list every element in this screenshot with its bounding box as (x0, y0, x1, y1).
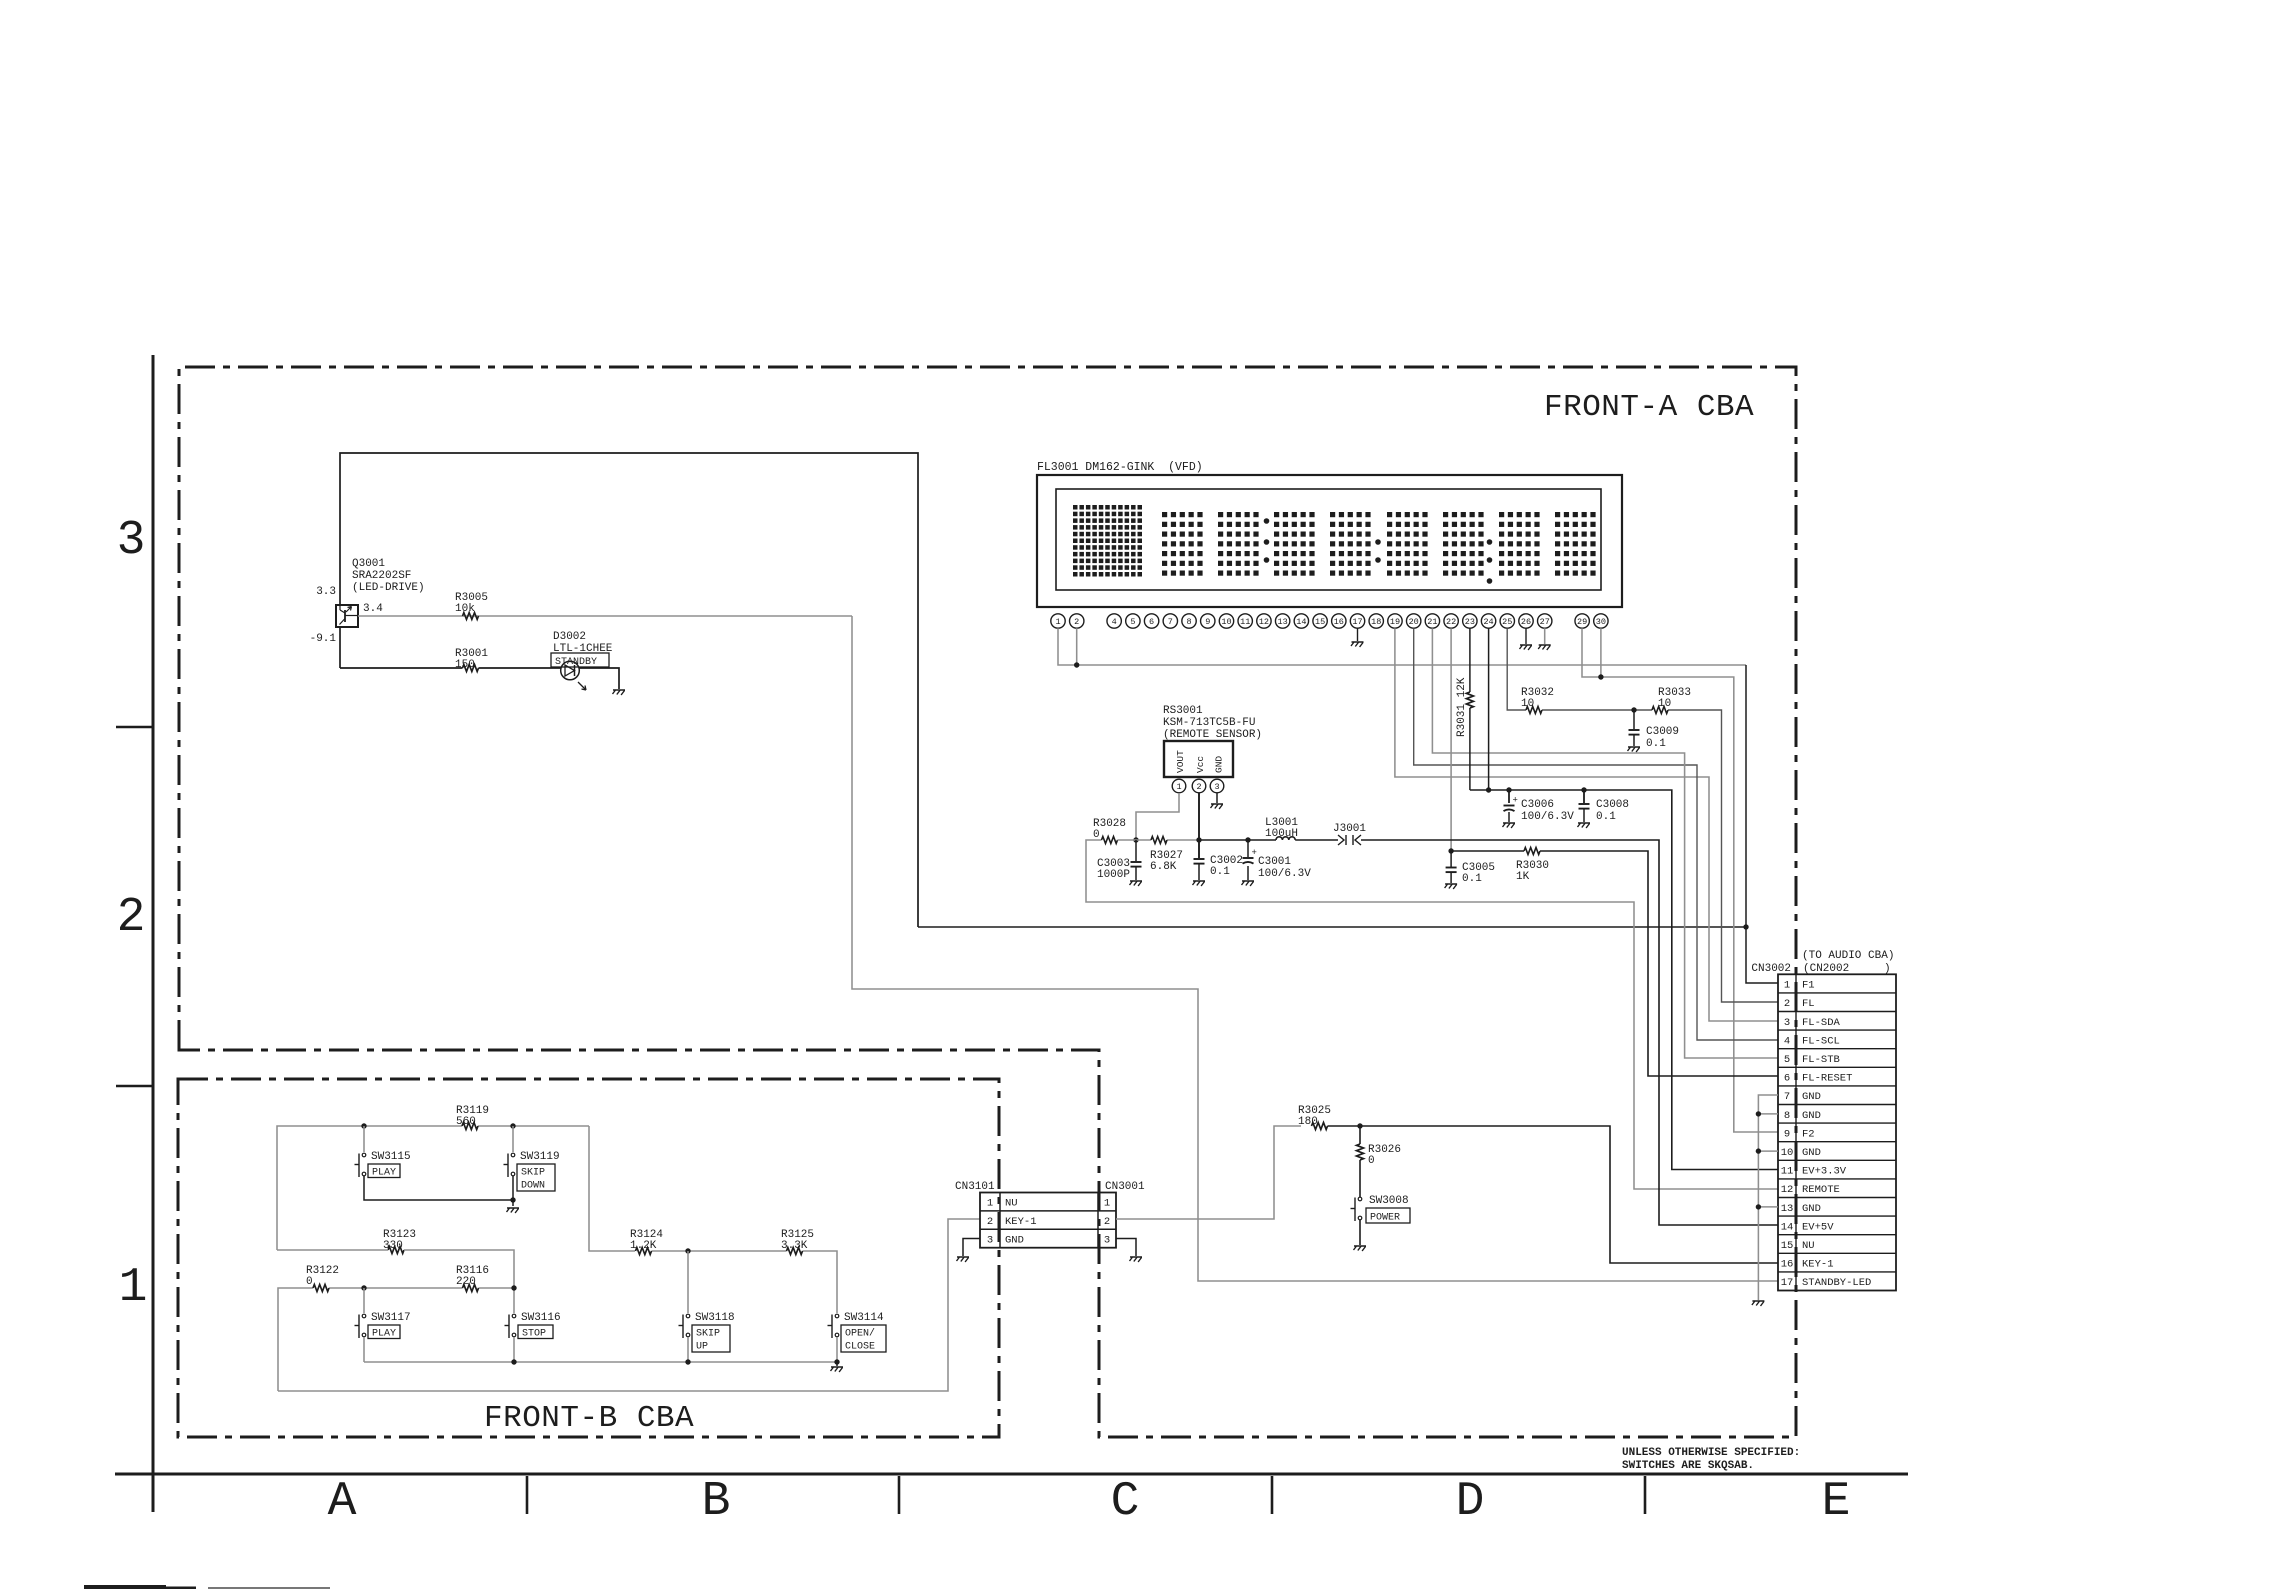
svg-text:0.1: 0.1 (1596, 811, 1616, 823)
sheet frame bottom border line (115, 1473, 1908, 1476)
board outline FRONT-A CBA dash-dot border (179, 367, 1796, 1437)
switch SW3008 (1351, 1195, 1409, 1221)
svg-text:(TO AUDIO CBA): (TO AUDIO CBA) (1802, 950, 1894, 962)
svg-text:FL-SCL: FL-SCL (1802, 1035, 1840, 1047)
svg-text:0: 0 (1093, 829, 1100, 841)
label box PLAY SW3115 (368, 1164, 400, 1179)
svg-text:-9.1: -9.1 (310, 633, 337, 645)
wire R3122 row (278, 1288, 514, 1391)
column tick D/E (1644, 1476, 1647, 1514)
node junction GND pin13 (1756, 1204, 1761, 1209)
svg-text:15: 15 (1315, 617, 1325, 627)
svg-text:0.1: 0.1 (1462, 873, 1482, 885)
wire Q3001 base STANDBY-LED net (358, 616, 1778, 1281)
ground below SW3119 (506, 1208, 519, 1214)
node junction SW3117 top (361, 1285, 366, 1290)
ground below C3003 (1129, 881, 1142, 887)
wire RS3001 GND pin to ground (1210, 793, 1223, 809)
label box POWER SW3008 (1366, 1208, 1410, 1224)
svg-text:C3006: C3006 (1521, 799, 1554, 811)
column label E (1822, 1475, 1851, 1529)
resistor R3001 (455, 648, 488, 672)
svg-text:4: 4 (1112, 617, 1117, 627)
node junction VFD pin30 F2 (1598, 674, 1603, 679)
svg-text:180: 180 (1298, 1116, 1318, 1128)
svg-text:FL-STB: FL-STB (1802, 1054, 1840, 1066)
resistor R3119 (456, 1105, 489, 1130)
svg-text:EV+5V: EV+5V (1802, 1221, 1834, 1233)
svg-text:+: + (1252, 848, 1257, 858)
svg-text:UP: UP (696, 1342, 708, 1353)
svg-text:2: 2 (1784, 998, 1790, 1010)
svg-text:PLAY: PLAY (372, 1329, 396, 1340)
svg-text:0: 0 (306, 1276, 313, 1288)
svg-text:15: 15 (1781, 1240, 1794, 1252)
svg-text:+: + (1513, 796, 1518, 806)
wire CN3001 pin3 to ground (1116, 1239, 1136, 1257)
node junction SW3119 top (510, 1123, 515, 1128)
wire F2 net VFD pins 29 30 to CN3002 pin9 (1582, 628, 1778, 1132)
svg-text:FL-RESET: FL-RESET (1802, 1073, 1852, 1085)
capacitor C3005 (1446, 851, 1495, 885)
node junction R3025 R3026 (1357, 1123, 1362, 1128)
svg-text:SKIP: SKIP (521, 1168, 545, 1179)
wire SW3115 drop from top rail (363, 1126, 365, 1152)
pin 3 GND RS3001 (1210, 779, 1224, 793)
svg-text:PLAY: PLAY (372, 1168, 396, 1179)
svg-text:SW3115: SW3115 (371, 1151, 411, 1163)
svg-text:1: 1 (1055, 617, 1060, 627)
svg-text:CN3002: CN3002 (1751, 963, 1791, 975)
svg-text:9: 9 (1205, 617, 1210, 627)
resistor R3033 (1652, 687, 1691, 714)
label box OPEN/CLOSE SW3114 (841, 1325, 886, 1353)
title FRONT-A CBA (1544, 390, 1754, 425)
svg-text:KSM-713TC5B-FU: KSM-713TC5B-FU (1163, 717, 1255, 729)
svg-text:2: 2 (1196, 782, 1201, 792)
svg-text:SWITCHES ARE SKQSAB.: SWITCHES ARE SKQSAB. (1622, 1460, 1754, 1472)
svg-text:1: 1 (119, 1261, 148, 1315)
column tick A/B (526, 1476, 529, 1514)
wire VFD pin24 drop (1488, 628, 1490, 790)
svg-text:6.8K: 6.8K (1150, 861, 1177, 873)
wire R3028 to R3027 (1118, 839, 1200, 841)
svg-text:CLOSE: CLOSE (845, 1342, 875, 1353)
label TO AUDIO CBA CN2002 (1802, 950, 1894, 975)
svg-text:4: 4 (1784, 1035, 1790, 1047)
column tick C/D (1271, 1476, 1274, 1514)
svg-text:220: 220 (456, 1276, 476, 1288)
wire KEY-1 row1 top rail FRONT-B (277, 1126, 837, 1313)
svg-text:NU: NU (1802, 1240, 1815, 1252)
wire FL-SDA net VFD pin19 to CN3002 pin3 (1395, 628, 1778, 1021)
svg-text:1K: 1K (1516, 871, 1530, 883)
wire Q3001 collector to R3001 (340, 627, 561, 668)
svg-text:29: 29 (1577, 617, 1587, 627)
svg-text:1: 1 (1784, 980, 1790, 992)
svg-text:1: 1 (1176, 782, 1181, 792)
svg-text:12: 12 (1259, 617, 1269, 627)
svg-text:21: 21 (1427, 617, 1437, 627)
label CN3101 (955, 1181, 995, 1193)
svg-text:GND: GND (1005, 1234, 1024, 1246)
svg-text:STOP: STOP (522, 1329, 546, 1340)
resistor R3026 (1357, 1126, 1402, 1167)
wire FL-SCL net VFD pin20 to CN3002 pin4 (1414, 628, 1778, 1040)
node junction pin24 3.3V row (1486, 787, 1491, 792)
column label A (328, 1475, 357, 1529)
svg-text:SW3119: SW3119 (520, 1151, 560, 1163)
svg-text:1: 1 (987, 1198, 993, 1210)
pin 2 Vcc RS3001 (1192, 779, 1206, 793)
node junction SW3118 bottom (685, 1359, 690, 1364)
wire RS3001 VOUT to R3028 node (1136, 793, 1179, 840)
ground below C3002 (1192, 881, 1205, 887)
svg-text:10: 10 (1658, 698, 1671, 710)
svg-text:GND: GND (1214, 756, 1225, 773)
capacitor C3002 (1194, 855, 1244, 880)
svg-text:D3002: D3002 (553, 631, 586, 643)
svg-text:FRONT-B CBA: FRONT-B CBA (484, 1401, 694, 1436)
label box SKIP DOWN SW3119 (517, 1164, 555, 1192)
svg-text:13: 13 (1781, 1203, 1794, 1215)
svg-text:GND: GND (1802, 1203, 1821, 1215)
display FL3001 VFD outline (1037, 461, 1622, 607)
svg-text:SW3008: SW3008 (1369, 1195, 1409, 1207)
node junction C3001 (1245, 837, 1250, 842)
node junction SW3116 bottom (511, 1359, 516, 1364)
svg-text:(CN2002: (CN2002 (1803, 963, 1849, 975)
svg-text:12: 12 (1781, 1184, 1794, 1196)
wire R3123 row to SW3116 junction (277, 1250, 514, 1313)
node junction R3116 SW3116 (511, 1285, 516, 1290)
display FL3001 pins (1051, 614, 1608, 628)
svg-text:Vcc: Vcc (1195, 756, 1206, 773)
resistor R3122 (306, 1265, 339, 1292)
svg-text:14: 14 (1296, 617, 1306, 627)
ground below SW3114 (830, 1362, 843, 1372)
wire switches bottom rail (364, 1337, 837, 1362)
svg-text:17: 17 (1781, 1277, 1794, 1289)
svg-text:A: A (328, 1475, 357, 1529)
wire SW3118 top drop (687, 1251, 689, 1313)
diode D3002 standby LED (553, 631, 613, 690)
wire KEY-1 from CN3001 pin2 to R3025 (1116, 1126, 1301, 1219)
resistor R3124 (630, 1229, 663, 1255)
svg-text:KEY-1: KEY-1 (1802, 1259, 1834, 1271)
resistor R3123 (383, 1229, 416, 1254)
svg-text:): ) (1884, 963, 1891, 975)
svg-text:10: 10 (1521, 698, 1534, 710)
wire FL net VFD pin25 R3032 R3033 to CN3002 pin2 (1507, 628, 1778, 1002)
wire KEY-1 bottom return to CN3101 (278, 1219, 980, 1391)
resistor R3028 (1093, 818, 1126, 844)
svg-text:SW3114: SW3114 (844, 1312, 884, 1324)
svg-text:CN3101: CN3101 (955, 1181, 995, 1193)
label CN3002 (1751, 963, 1791, 975)
svg-text:3: 3 (987, 1234, 993, 1246)
node junction VFD pin2 F1 (1074, 662, 1079, 667)
svg-text:GND: GND (1802, 1091, 1821, 1103)
sheet edge fragment bottom left (84, 1585, 330, 1589)
wire EV+3.3V row C3006 C3008 to CN3002 pin11 (1470, 790, 1778, 1170)
column label B (702, 1475, 731, 1529)
wire D3002 cathode to ground (579, 668, 619, 689)
svg-text:SW3116: SW3116 (521, 1312, 561, 1324)
node junction C3009 (1631, 707, 1636, 712)
svg-text:B: B (702, 1475, 731, 1529)
display FL3001 digit segments (1162, 512, 1596, 584)
svg-text:2: 2 (987, 1216, 993, 1228)
wire SW3008 to ground (1359, 1220, 1361, 1245)
inductor L3001 (1265, 817, 1298, 840)
svg-text:20: 20 (1409, 617, 1419, 627)
wire F1 net VFD pins 1 2 to CN3002 pin1 (1058, 628, 1778, 983)
svg-text:22: 22 (1446, 617, 1456, 627)
svg-text:100/6.3V: 100/6.3V (1258, 868, 1311, 880)
wire SW3119 drop from top rail (512, 1126, 514, 1152)
row tick 2/1 (116, 1085, 153, 1088)
svg-text:J3001: J3001 (1333, 823, 1366, 835)
svg-text:FL-SDA: FL-SDA (1802, 1017, 1841, 1029)
svg-text:10: 10 (1781, 1147, 1794, 1159)
transistor Q3001 (310, 558, 425, 645)
svg-text:SRA2202SF: SRA2202SF (352, 570, 411, 582)
svg-text:EV+3.3V: EV+3.3V (1802, 1166, 1847, 1178)
svg-text:0.1: 0.1 (1210, 866, 1230, 878)
wire EV+3.3V run to F1 node (918, 926, 1746, 928)
node junction Vcc C3002 (1196, 837, 1201, 842)
resistor R3005 (455, 592, 488, 620)
svg-text:OPEN/: OPEN/ (845, 1328, 875, 1340)
svg-text:10: 10 (1221, 617, 1231, 627)
svg-text:2: 2 (1104, 1216, 1110, 1228)
svg-text:RS3001: RS3001 (1163, 705, 1203, 717)
svg-text:STANDBY: STANDBY (555, 657, 597, 668)
svg-text:FL3001 DM162-GINK (VFD): FL3001 DM162-GINK (VFD) (1037, 461, 1203, 474)
connector CN3002 table (1778, 974, 1896, 1290)
svg-text:C3001: C3001 (1258, 856, 1291, 868)
svg-text:11: 11 (1240, 617, 1250, 627)
title FRONT-B CBA (484, 1401, 694, 1436)
row tick 3/2 (116, 726, 153, 729)
resistor R3025 (1298, 1105, 1331, 1130)
svg-text:17: 17 (1352, 617, 1362, 627)
wire SW3115 SW3119 bottom link (364, 1176, 513, 1200)
svg-text:Q3001: Q3001 (352, 558, 385, 570)
sheet frame left border line (152, 355, 155, 1512)
svg-text:UNLESS OTHERWISE SPECIFIED:: UNLESS OTHERWISE SPECIFIED: (1622, 1447, 1800, 1459)
wire VFD pin17 to ground (1351, 628, 1364, 647)
svg-text:11: 11 (1781, 1166, 1794, 1178)
svg-text:GND: GND (1802, 1110, 1821, 1122)
svg-text:30: 30 (1596, 617, 1606, 627)
svg-text:10k: 10k (455, 603, 475, 615)
ground CN3001 pin3 (1129, 1257, 1142, 1263)
wire CN3101 pin3 to ground (963, 1239, 980, 1257)
ground below C3006 (1502, 823, 1515, 829)
svg-text:C: C (1111, 1475, 1140, 1529)
wire GND bus CN3002 pins 7 8 10 13 (1758, 1095, 1778, 1300)
svg-text:3: 3 (1784, 1017, 1790, 1029)
svg-text:CN3001: CN3001 (1105, 1181, 1145, 1193)
svg-text:8: 8 (1784, 1110, 1790, 1122)
svg-text:23: 23 (1465, 617, 1475, 627)
note unless otherwise specified (1622, 1447, 1800, 1472)
wire VFD pin26 to ground (1519, 628, 1532, 650)
svg-text:C3008: C3008 (1596, 799, 1629, 811)
svg-text:560: 560 (456, 1116, 476, 1128)
wire Vcc EV+5V rail to CN3002 pin14 (1199, 793, 1778, 1225)
wire FL-RESET net R3030 to CN3002 pin6 (1451, 851, 1778, 1076)
switch SW3115 (355, 1151, 411, 1177)
svg-text:6: 6 (1784, 1073, 1790, 1085)
resistor R3032 (1521, 687, 1554, 714)
row label 1 (119, 1261, 148, 1315)
svg-text:REMOTE: REMOTE (1802, 1184, 1840, 1196)
svg-text:8: 8 (1186, 617, 1191, 627)
svg-text:6: 6 (1149, 617, 1154, 627)
svg-text:F1: F1 (1802, 980, 1815, 992)
node junction GND pin8 (1756, 1111, 1761, 1116)
resistor R3125 (781, 1229, 814, 1255)
svg-text:3.3: 3.3 (316, 586, 336, 598)
wire KEY-1 to CN3002 pin16 (1328, 1126, 1779, 1263)
svg-text:GND: GND (1802, 1147, 1821, 1159)
ground below C3008 (1577, 823, 1590, 829)
svg-text:7: 7 (1784, 1091, 1790, 1103)
ground below SW3008 (1353, 1246, 1366, 1252)
svg-text:FRONT-A CBA: FRONT-A CBA (1544, 390, 1754, 425)
connector CN3101 CN3001 table (980, 1193, 1116, 1248)
wire R3026 to SW3008 (1359, 1160, 1361, 1197)
svg-text:R3031 12K: R3031 12K (1456, 677, 1468, 737)
svg-text:3: 3 (1214, 782, 1219, 792)
capacitor C3009 (1629, 710, 1680, 750)
wire REMOTE rail R3028 to CN3002 pin12 (1086, 840, 1778, 1189)
ground below C3009 (1627, 747, 1640, 753)
svg-text:100uH: 100uH (1265, 828, 1298, 840)
svg-text:POWER: POWER (1370, 1213, 1400, 1224)
wire SW3119 bottom to ground (512, 1176, 514, 1206)
svg-text:27: 27 (1540, 617, 1550, 627)
svg-text:E: E (1822, 1475, 1851, 1529)
svg-text:14: 14 (1781, 1221, 1794, 1233)
svg-text:16: 16 (1334, 617, 1344, 627)
svg-text:SKIP: SKIP (696, 1329, 720, 1340)
svg-text:KEY-1: KEY-1 (1005, 1216, 1037, 1228)
resistor R3031 with wire from VFD pin23 (1456, 628, 1473, 790)
svg-text:SW3118: SW3118 (695, 1312, 735, 1324)
node junction SW3115 top (361, 1123, 366, 1128)
svg-text:150: 150 (455, 659, 475, 671)
svg-text:VOUT: VOUT (1175, 750, 1186, 773)
svg-text:D: D (1456, 1475, 1485, 1529)
svg-text:18: 18 (1371, 617, 1381, 627)
resistor R3116 (456, 1265, 489, 1292)
svg-text:(REMOTE SENSOR): (REMOTE SENSOR) (1163, 729, 1262, 741)
svg-text:FL: FL (1802, 998, 1815, 1010)
ground CN3101 pin3 (956, 1257, 969, 1263)
node junction GND pin10 (1756, 1148, 1761, 1153)
node junction SW3114 bottom ground (834, 1359, 839, 1364)
display FL3001 dot matrix block (1073, 505, 1142, 577)
switch SW3116 (505, 1312, 561, 1338)
resistor R3027 (1150, 837, 1183, 874)
column label C (1111, 1475, 1140, 1529)
svg-text:0.1: 0.1 (1646, 738, 1666, 750)
switch SW3117 (355, 1312, 411, 1338)
column tick B/C (898, 1476, 901, 1514)
svg-text:5: 5 (1130, 617, 1135, 627)
svg-text:2: 2 (1074, 617, 1079, 627)
svg-text:1000P: 1000P (1097, 869, 1130, 881)
ground below D3002 (612, 690, 625, 696)
svg-text:19: 19 (1390, 617, 1400, 627)
wire FL-STB net VFD pin21 to CN3002 pin5 (1432, 628, 1778, 1058)
svg-text:1.2K: 1.2K (630, 1240, 657, 1252)
switch SW3118 (679, 1312, 735, 1338)
capacitor C3003 (1097, 840, 1142, 881)
svg-text:16: 16 (1781, 1259, 1794, 1271)
row label 3 (117, 514, 146, 568)
label box STANDBY D3002 (551, 653, 609, 668)
connector J3001 jumper (1333, 823, 1366, 845)
capacitor C3008 (1579, 787, 1630, 823)
board outline FRONT-B CBA dash-dot border (178, 1079, 999, 1437)
ground CN3002 GND bus (1752, 1301, 1765, 1307)
label box SKIP UP SW3118 (692, 1325, 730, 1353)
svg-text:0: 0 (1368, 1155, 1375, 1167)
wire Q3001 emitter top loop (340, 453, 918, 927)
node junction F1 3.3V (1743, 924, 1748, 929)
svg-text:13: 13 (1278, 617, 1288, 627)
svg-text:26: 26 (1521, 617, 1531, 627)
wire VFD pin27 to ground (1538, 628, 1551, 650)
svg-text:7: 7 (1168, 617, 1173, 627)
svg-text:3.3K: 3.3K (781, 1240, 808, 1252)
wire SW3117 top drop (363, 1288, 365, 1313)
label box STOP SW3116 (518, 1325, 553, 1340)
svg-text:9: 9 (1784, 1128, 1790, 1140)
svg-text:C3009: C3009 (1646, 726, 1679, 738)
capacitor C3006 (1504, 787, 1575, 823)
column label D (1456, 1475, 1485, 1529)
svg-text:100/6.3V: 100/6.3V (1521, 811, 1574, 823)
svg-text:DOWN: DOWN (521, 1181, 545, 1192)
row label 2 (117, 891, 146, 945)
svg-text:1: 1 (1104, 1198, 1110, 1210)
svg-text:3.4: 3.4 (363, 603, 383, 615)
ground below C3001 (1241, 881, 1254, 887)
svg-text:2: 2 (117, 891, 146, 945)
svg-text:(LED-DRIVE): (LED-DRIVE) (352, 582, 425, 594)
node junction VOUT C3003 (1133, 837, 1138, 842)
svg-text:25: 25 (1502, 617, 1512, 627)
switch SW3119 (504, 1151, 560, 1177)
label CN3001 (1105, 1181, 1145, 1193)
wire VFD pin22 to R3030 row (1450, 628, 1452, 851)
svg-text:STANDBY-LED: STANDBY-LED (1802, 1277, 1871, 1289)
svg-text:3: 3 (117, 514, 146, 568)
node junction SW3118 top (685, 1248, 690, 1253)
svg-text:NU: NU (1005, 1198, 1018, 1210)
pin 1 VOUT RS3001 (1172, 779, 1186, 793)
capacitor C3001 (1243, 840, 1312, 880)
ground below C3005 (1445, 884, 1458, 890)
svg-text:SW3117: SW3117 (371, 1312, 411, 1324)
svg-text:F2: F2 (1802, 1128, 1815, 1140)
